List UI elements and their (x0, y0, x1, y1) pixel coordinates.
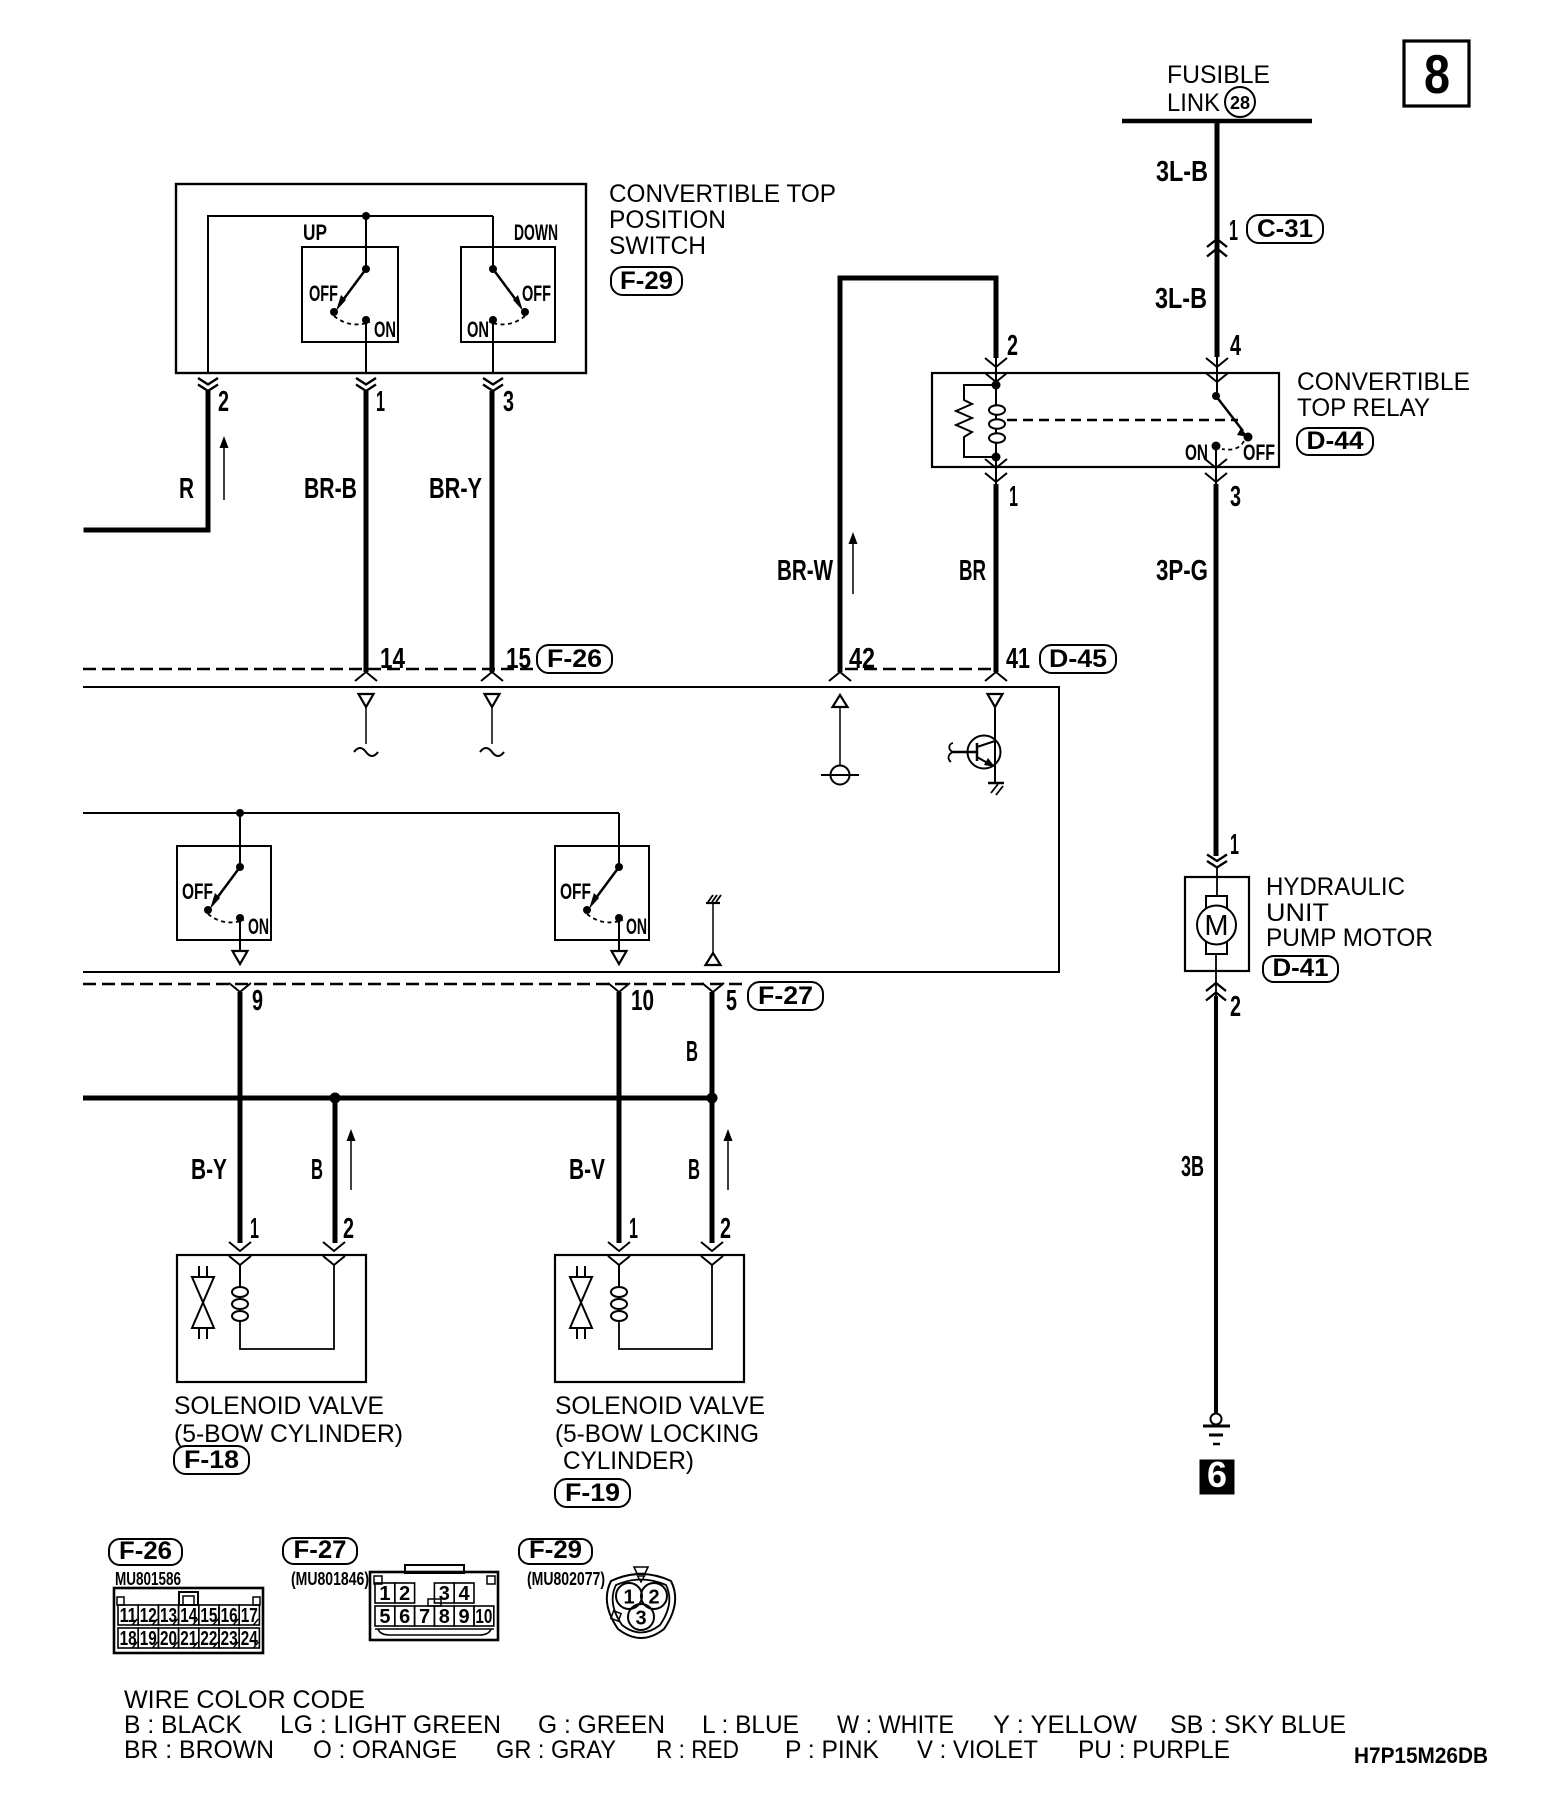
wire 9 fork (229, 983, 251, 992)
wire 9 / B-Y (238, 992, 243, 1243)
svg-text:5: 5 (379, 1606, 390, 1628)
wire 41 input triangle (988, 694, 1003, 707)
connector F-29 (611, 267, 682, 295)
solenoid coil (618, 1265, 620, 1321)
direction arrow (R) (223, 444, 225, 500)
convertible top relay box D-44 (932, 373, 1279, 467)
svg-text:6: 6 (1207, 1454, 1227, 1495)
svg-text:POSITION: POSITION (609, 206, 726, 234)
svg-text:ON: ON (248, 914, 269, 939)
svg-text:CONVERTIBLE TOP: CONVERTIBLE TOP (609, 180, 836, 208)
ground bus wire (83, 1096, 712, 1101)
svg-text:3L-B: 3L-B (1155, 283, 1207, 315)
page number box 8 (1404, 41, 1469, 106)
pin fork marks x=712 (701, 1242, 723, 1251)
relay resistor (956, 385, 996, 457)
svg-text:BR-Y: BR-Y (429, 473, 482, 505)
svg-text:3: 3 (635, 1608, 646, 1630)
svg-text:F-29: F-29 (529, 1536, 582, 1564)
svg-text:42: 42 (849, 643, 875, 675)
svg-text:ON: ON (626, 914, 647, 939)
svg-text:10: 10 (475, 1606, 492, 1628)
svg-text:SB : SKY BLUE: SB : SKY BLUE (1170, 1711, 1346, 1739)
svg-text:4: 4 (1230, 330, 1241, 362)
analog output circle symbol (831, 766, 850, 785)
wire 42 output triangle (833, 695, 848, 707)
relay pin 3 fork marks (1215, 446, 1217, 484)
svg-text:CONVERTIBLE: CONVERTIBLE (1297, 368, 1470, 396)
svg-text:BR : BROWN: BR : BROWN (124, 1736, 274, 1764)
svg-text:P : PINK: P : PINK (785, 1736, 879, 1764)
svg-text:3: 3 (1230, 481, 1241, 513)
svg-text:(MU801846): (MU801846) (291, 1569, 369, 1589)
svg-text:B-Y: B-Y (191, 1154, 227, 1186)
connector F-18 (174, 1446, 249, 1474)
circled 28 (1225, 87, 1255, 117)
svg-text:9: 9 (459, 1606, 470, 1628)
svg-text:3: 3 (503, 386, 514, 418)
svg-text:CYLINDER): CYLINDER) (563, 1447, 694, 1475)
motor M circle (1197, 906, 1236, 945)
svg-text:HYDRAULIC: HYDRAULIC (1266, 873, 1405, 901)
svg-text:F-26: F-26 (547, 645, 602, 673)
svg-text:LG : LIGHT GREEN: LG : LIGHT GREEN (280, 1711, 501, 1739)
squiggle 15 (480, 748, 504, 756)
svg-text:UP: UP (303, 220, 327, 245)
svg-text:B: B (686, 1036, 698, 1068)
svg-text:14: 14 (180, 1605, 198, 1627)
internal chassis ground (wire 5) (706, 902, 720, 904)
direction arrow (BR-W) (852, 540, 854, 594)
svg-text:8: 8 (1424, 43, 1450, 105)
svg-text:2: 2 (648, 1587, 659, 1609)
wire 3L-B (fusible link to relay pin 4) (1215, 121, 1220, 357)
wire 10 / B-V (617, 992, 622, 1243)
node: coil top junction (992, 381, 1001, 390)
wire BR-Y (pin 3) (490, 391, 495, 672)
connector D-45 (1040, 645, 1116, 673)
wire 3B (1214, 996, 1218, 1414)
node: bus junction right (707, 1093, 718, 1104)
hydraulic unit pump motor box D-41 (1185, 877, 1249, 971)
wire 41 fork (985, 672, 1007, 681)
valve symbol (577, 1266, 585, 1277)
valve symbol (199, 1266, 207, 1277)
svg-text:B-V: B-V (569, 1154, 605, 1186)
switch 2 output triangle (612, 951, 627, 964)
svg-text:BR-B: BR-B (304, 473, 357, 505)
relay pin 4 fork marks (1206, 358, 1228, 367)
relay coil (995, 385, 997, 457)
squiggle 14 (354, 748, 378, 756)
wire BR (relay pin 1 to 41) (994, 484, 999, 672)
wire BR-W (relay pin 2 branch) (840, 278, 996, 672)
wire 3P-G (relay pin 3 to pump motor) (1214, 484, 1219, 856)
node: feed junction (362, 212, 370, 220)
svg-text:O : ORANGE: O : ORANGE (313, 1736, 457, 1764)
svg-text:R : RED: R : RED (656, 1736, 739, 1764)
node: switch feed junction (236, 809, 244, 817)
svg-text:(5-BOW LOCKING: (5-BOW LOCKING (555, 1420, 759, 1448)
svg-text:ON: ON (374, 317, 396, 342)
pin fork marks x=619 (608, 1242, 630, 1251)
relay actuation dashed link (1007, 419, 1238, 421)
svg-text:2: 2 (399, 1583, 410, 1605)
svg-text:9: 9 (252, 985, 263, 1017)
svg-text:41: 41 (1006, 643, 1030, 675)
svg-text:B: B (688, 1154, 700, 1186)
connector D-44 (1297, 428, 1373, 455)
svg-text:TOP RELAY: TOP RELAY (1297, 394, 1430, 422)
svg-text:Y : YELLOW: Y : YELLOW (993, 1711, 1137, 1739)
motor pin 1 chevrons (1207, 855, 1227, 868)
svg-text:3B: 3B (1181, 1151, 1204, 1183)
switch internal feed wire (208, 215, 493, 217)
svg-text:7: 7 (419, 1606, 430, 1628)
wire 5 fork (702, 983, 724, 992)
connector F-29 (pinout) (519, 1539, 592, 1564)
svg-text:PUMP MOTOR: PUMP MOTOR (1266, 924, 1433, 952)
relay switch (1212, 392, 1220, 400)
internal switch 1 box (177, 846, 271, 940)
pin fork marks x=334 (323, 1242, 345, 1251)
fusible link bus bar (1122, 119, 1312, 124)
svg-text:V : VIOLET: V : VIOLET (917, 1736, 1038, 1764)
svg-text:F-27: F-27 (758, 982, 813, 1010)
connector F-19 (555, 1479, 630, 1507)
svg-text:1: 1 (379, 1583, 390, 1605)
svg-text:3L-B: 3L-B (1156, 156, 1208, 188)
svg-text:OFF: OFF (522, 281, 551, 306)
wire 15 input triangle (485, 694, 500, 707)
svg-text:1: 1 (1009, 481, 1018, 513)
svg-text:1: 1 (1230, 829, 1239, 861)
svg-text:(5-BOW CYLINDER): (5-BOW CYLINDER) (174, 1420, 403, 1448)
svg-text:W : WHITE: W : WHITE (837, 1711, 954, 1739)
svg-text:4: 4 (459, 1583, 471, 1605)
svg-text:UNIT: UNIT (1266, 899, 1329, 927)
svg-text:14: 14 (380, 643, 405, 675)
svg-text:D-44: D-44 (1307, 427, 1364, 455)
svg-text:F-19: F-19 (565, 1479, 620, 1507)
svg-text:2: 2 (720, 1213, 731, 1245)
svg-text:DOWN: DOWN (514, 220, 558, 245)
node: coil bottom junction (992, 453, 1001, 462)
internal switch 1 (236, 863, 244, 871)
svg-text:5: 5 (726, 985, 737, 1017)
svg-text:C-31: C-31 (1257, 215, 1313, 243)
wire 15 fork (481, 672, 503, 681)
svg-text:D-41: D-41 (1273, 954, 1329, 982)
svg-text:LINK: LINK (1167, 89, 1220, 117)
svg-text:L : BLUE: L : BLUE (702, 1711, 799, 1739)
svg-text:PU : PURPLE: PU : PURPLE (1078, 1736, 1230, 1764)
wire 42 fork (829, 672, 851, 681)
UP switch contacts (362, 265, 370, 273)
svg-text:D-45: D-45 (1049, 645, 1107, 673)
solenoid coil (239, 1265, 241, 1321)
node: bus junction left (330, 1093, 341, 1104)
svg-text:GR : GRAY: GR : GRAY (496, 1736, 616, 1764)
svg-text:1: 1 (1229, 215, 1238, 247)
solenoid valve box (177, 1255, 366, 1382)
wire BR-B (pin 1) (364, 391, 369, 672)
connector C-31 chevrons (1207, 239, 1227, 257)
svg-text:10: 10 (631, 985, 654, 1017)
ground symbol (1211, 1414, 1222, 1425)
motor armature terminal (1206, 896, 1227, 954)
connector F-27 dashed line (83, 983, 746, 985)
page reference 6 (1200, 1460, 1234, 1494)
svg-text:ON: ON (1185, 440, 1208, 465)
connector F-26 dashed line (83, 668, 534, 670)
svg-text:(MU802077): (MU802077) (527, 1569, 605, 1589)
svg-text:F-26: F-26 (119, 1537, 172, 1565)
svg-text:F-27: F-27 (294, 1536, 347, 1564)
wire 10 fork (608, 983, 630, 992)
convertible top position switch outer box F-29 (176, 184, 586, 373)
control unit box (83, 687, 1059, 972)
svg-text:SOLENOID VALVE: SOLENOID VALVE (555, 1392, 765, 1420)
svg-text:2: 2 (1007, 330, 1018, 362)
svg-text:WIRE COLOR CODE: WIRE COLOR CODE (124, 1686, 365, 1714)
F-29 housing (607, 1574, 675, 1638)
svg-text:B: B (311, 1154, 323, 1186)
relay pin 1 fork marks (995, 457, 997, 484)
svg-text:ON: ON (467, 317, 489, 342)
svg-text:SOLENOID VALVE: SOLENOID VALVE (174, 1392, 384, 1420)
svg-text:2: 2 (1230, 991, 1241, 1023)
transistor Q (relay driver) (994, 707, 996, 783)
svg-text:F-29: F-29 (620, 267, 673, 295)
svg-text:1: 1 (250, 1213, 259, 1245)
svg-text:G : GREEN: G : GREEN (538, 1711, 665, 1739)
internal switch 2 (615, 863, 623, 871)
svg-text:8: 8 (439, 1606, 450, 1628)
svg-text:15: 15 (506, 643, 531, 675)
svg-text:FUSIBLE: FUSIBLE (1167, 61, 1270, 89)
internal feed line (83, 812, 619, 814)
svg-text:M: M (1204, 910, 1228, 942)
svg-text:3P-G: 3P-G (1156, 555, 1208, 587)
svg-text:OFF: OFF (560, 879, 591, 904)
connector F-27 (748, 982, 823, 1010)
DOWN switch contacts (489, 265, 497, 273)
svg-text:OFF: OFF (309, 281, 338, 306)
svg-text:BR: BR (959, 555, 986, 587)
connector C-31 (1247, 215, 1323, 243)
svg-text:2: 2 (343, 1213, 354, 1245)
svg-text:6: 6 (399, 1606, 410, 1628)
svg-text:B : BLACK: B : BLACK (124, 1711, 242, 1739)
connector D-41 (1263, 956, 1338, 982)
connector D-45 dashed line (845, 668, 991, 670)
svg-text:1: 1 (623, 1587, 634, 1609)
svg-text:28: 28 (1230, 93, 1250, 113)
DOWN switch box (461, 247, 555, 342)
connector F-27 (pinout) (283, 1538, 357, 1564)
wire B (left solenoid) (333, 1098, 338, 1243)
internal switch 2 box (555, 846, 649, 940)
svg-text:OFF: OFF (182, 879, 213, 904)
solenoid valve box (555, 1255, 744, 1382)
F-29 pin chevrons (198, 378, 218, 391)
svg-text:R: R (179, 473, 194, 505)
wire 5 input triangle (706, 953, 721, 965)
wire B (right solenoid) (710, 992, 715, 1243)
svg-text:OFF: OFF (1243, 440, 1275, 465)
svg-text:H7P15M26DB: H7P15M26DB (1354, 1743, 1488, 1768)
transistor ground (988, 782, 1004, 785)
motor pin 2 chevrons (1215, 954, 1217, 996)
relay pin 2 fork marks (985, 358, 1007, 367)
UP switch box (302, 247, 398, 342)
connector F-26 (pinout) (109, 1539, 182, 1565)
svg-text:MU801586: MU801586 (115, 1569, 181, 1589)
svg-text:1: 1 (376, 386, 385, 418)
svg-text:1: 1 (629, 1213, 638, 1245)
svg-text:24: 24 (241, 1628, 259, 1650)
switch 1 output triangle (233, 951, 248, 964)
svg-text:BR-W: BR-W (777, 555, 833, 587)
connector F-26 (537, 645, 612, 673)
pin fork marks x=240 (229, 1242, 251, 1251)
svg-text:F-18: F-18 (184, 1446, 239, 1474)
svg-text:SWITCH: SWITCH (609, 232, 706, 260)
wire 14 input triangle (359, 694, 374, 707)
wire 14 fork (355, 672, 377, 681)
svg-text:2: 2 (218, 386, 229, 418)
wire R (pin 2) (84, 391, 209, 530)
